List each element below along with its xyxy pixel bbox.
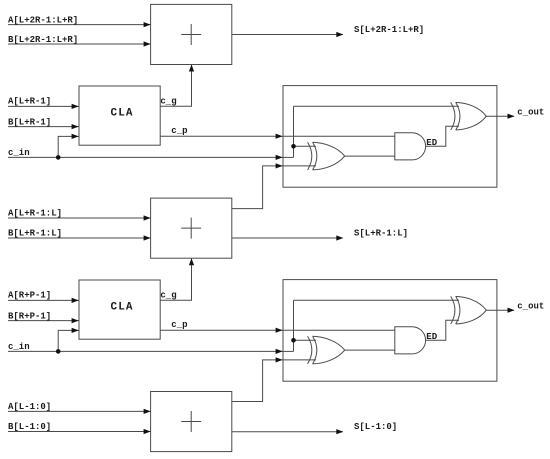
adder box ADD1 [151, 4, 232, 64]
wire AND1 output ED to XOR2 lower input [426, 126, 459, 146]
XOR gate X2 body [456, 102, 487, 130]
arrowhead tap into G1 [276, 163, 283, 168]
CLA box U2 [79, 280, 160, 339]
svg-text:A[R+P-1]: A[R+P-1] [8, 291, 51, 301]
CLA box U1 [79, 86, 160, 145]
svg-text:c_in: c_in [8, 342, 30, 352]
wire c_p inside G1 to AND gate [283, 135, 395, 137]
wire riser in G2 [293, 300, 295, 351]
wire ADD1 sum output to S[L+2R-1:L+R] [232, 34, 343, 36]
wire c_in bus lower [8, 350, 283, 352]
arrowhead c_out lower [508, 308, 515, 313]
XOR gate X3 body [313, 336, 345, 364]
wire c_in branch up to CLA U2 third input [58, 330, 78, 351]
wire A[L+R-1] to CLA U1 [8, 105, 79, 107]
carry logic box G1 [283, 86, 497, 188]
arrowhead tap into G2 [276, 357, 283, 362]
plus symbol of ADD1 [181, 24, 201, 45]
junction dot c_in at CLA U2 branch [56, 349, 61, 354]
arrowhead B[R+P-1] into CLA U2 [72, 318, 79, 323]
wire XOR4 output to c_out [486, 309, 514, 311]
adder box ADD3 [151, 392, 232, 452]
arrowhead c_p into G1 [276, 134, 283, 139]
svg-text:c_g: c_g [160, 97, 176, 107]
wire G1 third input to XOR1 lower input [283, 165, 316, 167]
wire B[L-1:0] to ADD3 [8, 431, 151, 433]
wire A[L+2R-1:L+R] to ADD1 [8, 24, 151, 26]
svg-text:B[L-1:0]: B[L-1:0] [8, 422, 51, 432]
plus symbol of ADD3 [181, 411, 201, 432]
svg-text:B[L+R-1:L]: B[L+R-1:L] [8, 229, 62, 239]
wire B[L+R-1:L] to ADD2 [8, 237, 151, 239]
arrowhead A[L+2R-1:L+R] into ADD1 [144, 22, 151, 27]
wire c_in bus upper [8, 156, 283, 158]
svg-text:ED: ED [426, 332, 437, 342]
svg-text:S[L+2R-1:L+R]: S[L+2R-1:L+R] [354, 25, 424, 35]
arrowhead c_out upper [508, 114, 515, 119]
XOR gate X4 input arc [451, 296, 455, 324]
svg-text:c_p: c_p [171, 320, 187, 330]
svg-text:B[L+2R-1:L+R]: B[L+2R-1:L+R] [8, 35, 78, 45]
wire ADD2 msb tap to G1 third input [232, 166, 283, 209]
arrowhead A[L-1:0] into ADD3 [144, 409, 151, 414]
carry logic box G2 [283, 280, 497, 382]
svg-text:c_out: c_out [517, 302, 544, 312]
AND gate A2 [395, 327, 426, 354]
junction dot c_in at CLA U1 branch [56, 155, 61, 160]
wire c_in branch up to CLA U1 third input [58, 136, 78, 157]
wire c_g from CLA U2 to ADD2 carry input [160, 259, 191, 301]
wire G2 top rail to XOR4 [294, 299, 460, 301]
arrowhead B[L+2R-1:L+R] into ADD1 [144, 41, 151, 46]
junction dot G1 riser branch [291, 144, 296, 149]
wire B[L+2R-1:L+R] to ADD1 [8, 43, 151, 45]
arrowhead c_g up into ADD2 [189, 258, 194, 265]
wire ADD3 msb tap to G2 third input [232, 360, 283, 402]
wire B[R+P-1] to CLA U2 [8, 320, 79, 322]
wire A[L+R-1:L] to ADD2 [8, 217, 151, 219]
arrowhead c_in branch into CLA U2 [72, 328, 79, 333]
AND gate A1 [395, 133, 426, 160]
wire c_in inside G1 to riser [283, 156, 294, 158]
arrowhead A[L+R-1] into CLA U1 [72, 104, 79, 109]
wire c_in inside G2 to riser [283, 350, 294, 352]
arrowhead B[L+R-1:L] into ADD2 [144, 235, 151, 240]
arrowhead S[L+2R-1:L+R] [336, 32, 343, 37]
XOR gate X2 input arc [451, 102, 455, 130]
svg-text:S[L+R-1:L]: S[L+R-1:L] [354, 229, 408, 239]
svg-text:A[L+R-1:L]: A[L+R-1:L] [8, 209, 62, 219]
wire ADD2 sum output to S[L+R-1:L] [232, 237, 343, 239]
wire G1 top rail to XOR2 [294, 105, 460, 107]
wire c_p inside G2 to AND gate [283, 329, 395, 331]
wire XOR1 output to AND1 [345, 155, 395, 157]
wire XOR2 output to c_out [486, 115, 514, 117]
wire G2 third input to XOR3 lower input [283, 359, 316, 361]
arrowhead S[L-1:0] [336, 429, 343, 434]
svg-text:c_p: c_p [171, 126, 187, 136]
wire riser in G1 [293, 106, 295, 157]
wire ADD3 sum output to S[L-1:0] [232, 431, 343, 433]
wire XOR3 output to AND2 [345, 349, 395, 351]
XOR gate X1 body [313, 142, 345, 170]
wire A[L-1:0] to ADD3 [8, 410, 151, 412]
svg-text:CLA: CLA [111, 302, 134, 314]
arrowhead A[R+P-1] into CLA U2 [72, 298, 79, 303]
arrowhead c_g up into ADD1 [189, 65, 194, 72]
svg-text:c_g: c_g [160, 291, 176, 301]
XOR gate X4 body [456, 296, 487, 324]
arrowhead c_in into G1 [276, 155, 283, 160]
wire AND2 output ED to XOR4 lower input [426, 320, 459, 340]
arrowhead c_in into G2 [276, 349, 283, 354]
arrowhead A[L+R-1:L] into ADD2 [144, 215, 151, 220]
svg-text:c_out: c_out [517, 108, 544, 118]
wire c_g from CLA U1 to ADD1 carry input [160, 65, 191, 106]
svg-text:ED: ED [426, 138, 437, 148]
svg-text:S[L-1:0]: S[L-1:0] [354, 422, 397, 432]
plus symbol of ADD2 [181, 218, 201, 239]
wire branch to XOR1 upper input [294, 145, 317, 147]
svg-text:B[R+P-1]: B[R+P-1] [8, 311, 51, 321]
svg-text:B[L+R-1]: B[L+R-1] [8, 117, 51, 127]
XOR gate X1 input arc [308, 142, 312, 170]
wire A[R+P-1] to CLA U2 [8, 299, 79, 301]
arrowhead c_in branch into CLA U1 [72, 134, 79, 139]
svg-text:A[L-1:0]: A[L-1:0] [8, 402, 51, 412]
arrowhead B[L-1:0] into ADD3 [144, 429, 151, 434]
adder box ADD2 [151, 198, 232, 258]
wire B[L+R-1] to CLA U1 [8, 126, 79, 128]
wire branch to XOR3 upper input [294, 339, 317, 341]
svg-text:c_in: c_in [8, 148, 30, 158]
junction dot G2 riser branch [291, 338, 296, 343]
arrowhead c_p into G2 [276, 328, 283, 333]
arrowhead B[L+R-1] into CLA U1 [72, 124, 79, 129]
svg-text:A[L+2R-1:L+R]: A[L+2R-1:L+R] [8, 15, 78, 25]
svg-text:A[L+R-1]: A[L+R-1] [8, 97, 51, 107]
XOR gate X3 input arc [308, 336, 312, 364]
svg-text:CLA: CLA [111, 108, 134, 120]
arrowhead S[L+R-1:L] [336, 235, 343, 240]
wire c_p from CLA U1 to G1 [160, 135, 282, 137]
wire c_p from CLA U2 to G2 [160, 329, 282, 331]
